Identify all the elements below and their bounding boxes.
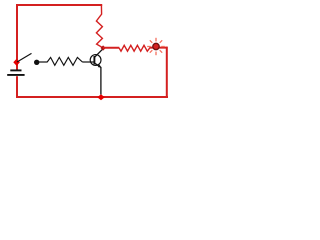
node emitter bottom junction — [97, 94, 104, 100]
switch SW1 lever — [17, 53, 32, 62]
wire switch to resistor — [39, 61, 48, 63]
resistor R3 lamp resistor — [119, 45, 150, 51]
wire left rail upper — [16, 4, 18, 60]
transistor Q1 emitter lead — [95, 63, 102, 67]
lamp L1 body — [153, 43, 159, 49]
transistor Q1 base bar — [93, 56, 95, 64]
wire junction to lamp resistor — [103, 47, 119, 49]
wire left rail between switch node and battery — [16, 64, 18, 70]
wire resistor to lamp to right rail — [150, 47, 168, 49]
battery B1 top plate — [10, 69, 21, 71]
transistor Q1 emitter arrow — [98, 65, 101, 68]
wire emitter down — [100, 67, 102, 95]
resistor R1 collector resistor vertical — [96, 5, 103, 48]
wire top rail — [16, 4, 102, 6]
transistor Q1 circle — [90, 55, 101, 66]
lamp L1 rays — [147, 38, 165, 55]
wire left rail lower — [16, 76, 18, 97]
battery B1 bottom plate — [7, 74, 24, 76]
node collector junction — [101, 45, 106, 50]
transistor Q1 collector lead — [95, 49, 104, 58]
wire bottom rail — [16, 96, 168, 98]
wire right rail — [166, 47, 168, 98]
resistor R2 base resistor — [47, 57, 82, 65]
wire resistor to base — [82, 61, 94, 63]
switch SW1 contact dot — [34, 60, 39, 65]
node switch pivot junction — [13, 59, 20, 66]
